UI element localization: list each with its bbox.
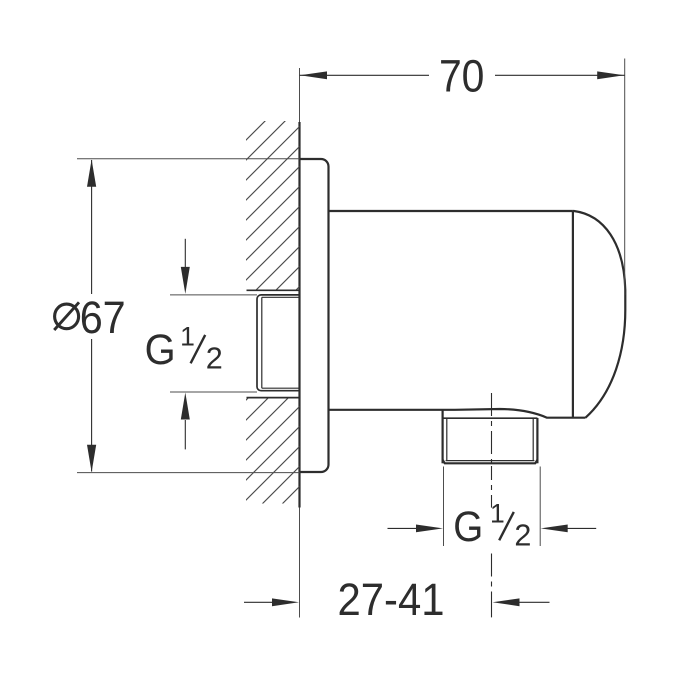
outlet thread inner bottom line xyxy=(446,460,535,462)
dim 27-41 left arrow xyxy=(244,601,274,603)
inlet thread inner bottom line xyxy=(262,387,300,389)
inlet thread inner vertical line xyxy=(261,297,263,388)
rounded end cap outline xyxy=(573,211,625,418)
svg-text:2: 2 xyxy=(514,518,531,552)
inlet thread bottom reference line xyxy=(170,391,257,393)
outlet dim right extension line xyxy=(539,467,541,547)
dim 70 right extension line xyxy=(624,59,626,296)
outlet left outer edge xyxy=(442,410,444,463)
dim 67 top extension line xyxy=(77,158,300,160)
outlet shoulder line xyxy=(443,417,538,419)
svg-text:G: G xyxy=(453,504,483,551)
body/cap junction line xyxy=(572,211,574,417)
inlet thread up arrow xyxy=(184,420,186,449)
dim 67 down arrowhead xyxy=(87,445,96,472)
wall surface line xyxy=(298,122,300,508)
inlet thread down arrow xyxy=(184,239,186,269)
inlet thread outer outline xyxy=(257,295,300,391)
outlet bottom edge with chamfers xyxy=(443,460,538,464)
dim 70 line left segment xyxy=(300,74,430,76)
dim 67 up arrowhead xyxy=(87,160,96,187)
outlet centerline middle xyxy=(491,466,493,508)
outlet dim left extension line xyxy=(443,467,445,547)
inlet thread top reference line xyxy=(170,294,257,296)
wall extension line lower xyxy=(299,508,301,618)
outlet thread inner left line xyxy=(446,418,448,461)
escutcheon flange outline xyxy=(300,159,329,472)
outlet right outer edge xyxy=(536,418,538,463)
wall hatching lower band xyxy=(245,86,301,581)
inlet thread inner top line xyxy=(262,296,300,298)
wall hatching upper band xyxy=(245,86,301,581)
svg-text:2: 2 xyxy=(206,341,223,375)
svg-text:67: 67 xyxy=(80,292,126,343)
dim 70 right arrowhead xyxy=(597,71,624,79)
dim 67 diameter symbol xyxy=(55,304,79,329)
dim 67 line upper segment xyxy=(91,160,93,294)
outlet centerline lower xyxy=(491,554,493,618)
wall opening top edge xyxy=(247,289,300,291)
dim 67 bottom extension line xyxy=(77,472,300,474)
body underside edge xyxy=(329,409,586,418)
svg-text:G: G xyxy=(145,327,176,374)
svg-text:70: 70 xyxy=(439,51,485,102)
svg-text:1: 1 xyxy=(180,321,195,351)
body top edge xyxy=(329,210,573,212)
outlet dim right arrow xyxy=(566,527,596,529)
wall extension line upper xyxy=(299,68,301,122)
outlet thread inner right line xyxy=(532,418,534,461)
dim 70 left arrowhead xyxy=(300,71,327,79)
dim 67 line lower segment xyxy=(91,339,93,472)
wall opening bottom edge xyxy=(247,397,300,399)
svg-text:1: 1 xyxy=(490,498,505,528)
svg-text:27-41: 27-41 xyxy=(338,574,445,625)
dim 27-41 right arrow xyxy=(520,601,550,603)
dim 70 line right segment xyxy=(495,74,625,76)
outlet dim left arrow xyxy=(388,527,418,529)
outlet centerline upper xyxy=(491,393,493,463)
